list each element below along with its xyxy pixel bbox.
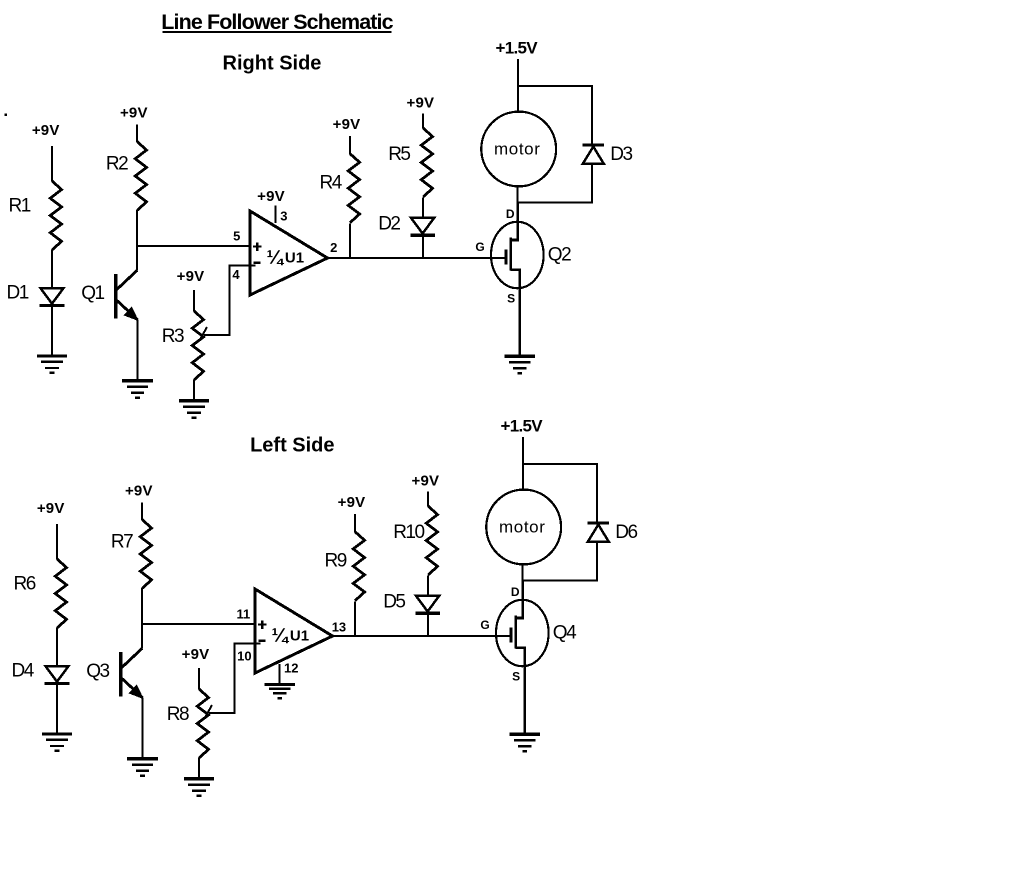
svg-text:+9V: +9V [37,500,65,517]
svg-text:R7: R7 [111,532,133,553]
op-amp - input symbol [253,262,260,264]
svg-text:R10: R10 [393,522,424,543]
op-amp + input symbol [258,620,267,629]
diode D5 [415,596,440,613]
svg-text:+9V: +9V [125,483,153,500]
svg-text:R8: R8 [167,704,189,725]
op-amp + input symbol [253,242,262,251]
wire R7-collector [141,588,143,649]
svg-text:+1.5V: +1.5V [500,416,543,435]
resistor R2 [135,142,146,211]
wire R4-output node [349,223,351,258]
ground (Q4) [510,734,541,752]
title underline [163,31,392,33]
wire R2 top [136,125,138,142]
wire R7 top [141,503,143,520]
svg-text:R2: R2 [106,154,128,175]
wire R5 top [422,114,424,129]
op-amp U1 (right) [250,211,328,295]
svg-text:D5: D5 [383,592,405,613]
wire R6 top [56,524,58,560]
ground (D1) [37,356,67,374]
svg-text:R5: R5 [388,144,410,165]
wire node R2/U1+ input [136,245,250,247]
svg-text:+9V: +9V [257,188,285,205]
wire D6 top [596,464,598,522]
svg-text:Right Side: Right Side [223,53,322,75]
resistor R10 [426,506,437,575]
svg-text:motor: motor [494,140,540,159]
wire D1-gnd [51,307,53,355]
ground (R8) [184,779,214,797]
transistor Q1 [116,270,138,320]
motor (right) [481,112,556,187]
svg-text:D1: D1 [7,283,29,304]
svg-text:Q3: Q3 [86,661,109,682]
resistor R7 [140,520,151,589]
wire motor/D6 top branch [522,463,598,465]
svg-text:4: 4 [232,267,240,282]
svg-text:+9V: +9V [407,95,435,112]
svg-text:12: 12 [284,660,298,675]
transistor Q2 [491,201,544,355]
wire node R7/U1+ input [141,623,255,625]
transistor Q4 [496,579,549,733]
svg-text:Q2: Q2 [548,245,571,266]
resistor R4 [348,154,359,223]
resistor R9 [353,532,364,601]
svg-text:D4: D4 [12,661,35,682]
svg-text:13: 13 [332,619,346,634]
wire +1.5V-motor [522,437,524,491]
ground (Q1) [122,381,153,399]
wire D4-gnd [56,685,58,733]
resistor R8 [197,689,208,758]
svg-text:2: 2 [330,240,337,255]
wire R3 top [193,290,195,312]
ground (D4) [42,734,72,752]
transistor Q3 [121,648,143,698]
svg-text:G: G [475,240,484,254]
wire R10-D5 [427,576,429,597]
wire D3 bottom [591,164,593,203]
svg-text:motor: motor [499,518,545,537]
svg-text:+9V: +9V [182,646,210,663]
svg-text:R4: R4 [320,173,343,194]
resistor R6 [55,559,66,628]
wire +1.5V-motor [517,59,519,113]
svg-text:D: D [506,207,515,221]
wire R10 top [427,492,429,507]
wire D2-output node [422,237,424,259]
stray page dot [5,114,7,117]
wire R9-output node [354,601,356,636]
wire R1 top [51,146,53,182]
svg-text:Q4: Q4 [553,623,577,644]
diode D1 [40,288,65,305]
wire motor/D3 top branch [517,85,593,87]
wire motor-Q2 drain [517,186,519,202]
wire U1 pin3 stub [275,206,277,224]
ground (U1 pin12) [264,685,295,700]
wire D3 top [591,86,593,144]
potentiometer R3 wiper [200,265,256,340]
svg-text:R3: R3 [162,326,184,347]
wire R8 top [198,668,200,690]
diode D4 [45,666,70,683]
svg-text:+9V: +9V [333,116,361,133]
wire U1 pin12 stub [279,664,281,684]
svg-text:Line Follower Schematic: Line Follower Schematic [161,10,393,34]
wire motor-Q4 drain [522,564,524,580]
motor (left) [486,490,561,565]
svg-text:¼: ¼ [267,247,285,269]
resistor R3 [192,311,203,380]
wire R4 top [349,136,351,154]
svg-text:3: 3 [280,209,287,224]
diode D6 [588,523,609,542]
svg-text:+9V: +9V [412,473,440,490]
svg-text:Q1: Q1 [81,283,104,304]
wire R9 top [354,514,356,532]
wire motor/D6 bottom branch [522,579,598,581]
wire D5-output node [427,615,429,637]
wire U1 output-gate [333,635,512,637]
svg-text:G: G [480,618,489,632]
svg-text:Left Side: Left Side [250,435,334,457]
wire R3-gnd [193,380,195,400]
svg-text:R1: R1 [9,196,31,217]
svg-text:+9V: +9V [338,494,366,511]
ground (R3) [179,401,209,419]
svg-text:S: S [512,670,520,684]
svg-text:R6: R6 [14,574,36,595]
ground (Q3) [127,759,158,777]
wire R2-collector [136,210,138,271]
op-amp U1 (left) [255,589,333,673]
svg-text:+9V: +9V [120,105,148,122]
svg-text:U1: U1 [285,250,304,267]
svg-text:U1: U1 [290,628,309,645]
resistor R5 [421,128,432,197]
svg-text:+1.5V: +1.5V [495,38,538,57]
svg-text:+9V: +9V [32,122,60,139]
wire motor/D3 bottom branch [517,201,593,203]
wire U1 output-gate [328,257,507,259]
svg-text:5: 5 [233,228,240,243]
svg-text:+9V: +9V [177,268,205,285]
svg-text:D3: D3 [610,144,632,165]
wire Q1 emitter-gnd [137,320,139,380]
svg-text:S: S [507,292,515,306]
diode D2 [410,218,435,235]
svg-text:¼: ¼ [272,625,290,647]
svg-text:R9: R9 [325,551,347,572]
resistor R1 [50,181,61,250]
svg-text:11: 11 [237,606,251,621]
wire D6 bottom [596,542,598,581]
svg-text:D6: D6 [615,522,637,543]
potentiometer R8 wiper [205,643,261,718]
ground (Q2) [505,356,536,374]
wire R8-gnd [198,758,200,778]
wire Q3 emitter-gnd [142,698,144,758]
wire R6-D4 [56,628,58,667]
wire R1-D1 [51,250,53,289]
wire R5-D2 [422,198,424,219]
svg-text:D: D [511,585,520,599]
svg-text:10: 10 [237,649,251,664]
op-amp - input symbol [258,640,265,642]
diode D3 [583,145,604,164]
svg-text:D2: D2 [378,214,400,235]
